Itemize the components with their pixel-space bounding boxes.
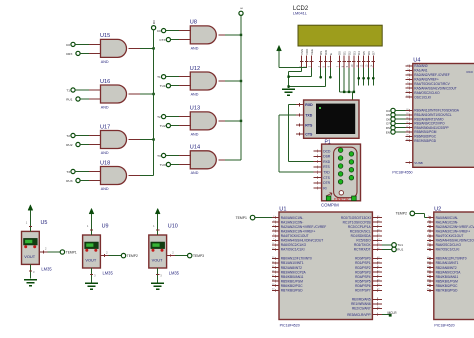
svg-text:RC5/SDO: RC5/SDO — [356, 239, 371, 243]
wire U14 output — [218, 159, 241, 161]
svg-text:RA3/AN3/C1IN+/VREF+: RA3/AN3/C1IN+/VREF+ — [281, 229, 316, 233]
wire T2 to U13.A — [166, 116, 191, 118]
svg-text:RB7/KBI3/PGD: RB7/KBI3/PGD — [281, 288, 303, 292]
svg-text:VOUT: VOUT — [85, 258, 96, 263]
svg-text:RB6/KBI2/PGC: RB6/KBI2/PGC — [281, 284, 303, 288]
svg-text:RU1: RU1 — [66, 98, 72, 102]
U1 pin RC0/T1OSO/T13CKI (pin 15) — [341, 216, 382, 220]
and-gate U12 — [190, 66, 217, 97]
junction MCLR — [389, 314, 392, 317]
svg-text:CRX: CRX — [66, 52, 73, 56]
svg-text:LM35: LM35 — [41, 267, 52, 272]
svg-text:RA6/OSC2/CLKO: RA6/OSC2/CLKO — [436, 243, 462, 247]
junction E end — [329, 76, 332, 79]
svg-text:RA4/T0CKI/C1OUT: RA4/T0CKI/C1OUT — [281, 234, 309, 238]
wire U9.VOUT to TEMP2 — [100, 250, 121, 257]
U4 right-side pin label (partial RC0/T1OSO) — [467, 70, 473, 74]
terminal TEMP2 — [121, 253, 138, 258]
U2 pin RB6/KBI2/PGC (pin 39) — [427, 284, 458, 288]
U2 pin RA6/OSC2/CLKO (pin 14) — [427, 243, 462, 247]
svg-text:D1: D1 — [343, 51, 347, 55]
svg-text:RC4/SDI/SDA: RC4/SDI/SDA — [351, 234, 372, 238]
svg-text:RW: RW — [324, 50, 328, 55]
svg-text:RB4/KBI0/AN11: RB4/KBI0/AN11 — [281, 275, 304, 279]
svg-text:TU1: TU1 — [397, 243, 403, 247]
compim P1 body — [322, 144, 361, 202]
svg-text:E: E — [329, 53, 333, 55]
terminal TU3 (input B of U14) — [160, 162, 171, 167]
svg-text:RB4/KBI0/AN11: RB4/KBI0/AN11 — [436, 275, 459, 279]
svg-text:TEMP2: TEMP2 — [396, 212, 407, 216]
U1 pin RD4/PSP4 (pin 27) — [355, 275, 382, 279]
svg-text:RD2/PSP2: RD2/PSP2 — [355, 266, 371, 270]
lcd pin RW (pin 5) — [323, 50, 328, 68]
junction U13-out / net E bus — [240, 120, 242, 122]
U4 pin RA4/T0CKI/C1OUT/RCV (pin 6) — [406, 82, 451, 86]
svg-text:U8: U8 — [190, 20, 197, 26]
wire D1 down — [343, 68, 345, 92]
U1 pin RD0/PSP0 (pin 19) — [355, 257, 382, 261]
U1 pin RB3/AN9/CCP2A (pin 36) — [272, 270, 307, 274]
U1 pin RD6/PSP6 (pin 29) — [355, 284, 382, 288]
compim pin RI — [314, 186, 327, 190]
svg-text:COMPIM: COMPIM — [321, 202, 339, 207]
svg-text:RE0/RD/AN5: RE0/RD/AN5 — [352, 298, 371, 302]
wire CTX to U8.B — [171, 39, 191, 41]
U4 pin RA5/AN4/SS/HLVDIN/C2OUT (pin 7) — [406, 86, 457, 90]
junction RS end — [319, 76, 322, 79]
U1 pin RB6/KBI2/PGC (pin 39) — [272, 284, 303, 288]
temperature sensor U10 (LM35) — [149, 224, 180, 276]
svg-text:C0: C0 — [66, 43, 70, 47]
wire U10.GND to ground — [156, 268, 162, 282]
wire E stub — [329, 68, 331, 77]
svg-text:U18: U18 — [100, 160, 110, 166]
svg-text:ERROR: ERROR — [334, 197, 349, 202]
U2 pin RB1/AN10/INT1 (pin 34) — [427, 261, 459, 265]
svg-text:T3: T3 — [66, 170, 70, 174]
U2 pin RB7/KBI3/PGD (pin 40) — [427, 288, 458, 292]
svg-text:D3: D3 — [352, 51, 356, 55]
svg-text:RB7/KBI3/PGD: RB7/KBI3/PGD — [414, 139, 436, 143]
svg-text:C0: C0 — [157, 29, 161, 33]
svg-text:U10: U10 — [168, 224, 178, 230]
ground (below U9) — [85, 283, 98, 289]
svg-text:U2: U2 — [434, 206, 441, 212]
svg-text:T1: T1 — [66, 89, 70, 93]
U1 pin RD3/PSP3 (pin 22) — [355, 270, 382, 274]
U4 pin RA0/AN0 (pin 2) — [406, 64, 428, 68]
terminal EN — [386, 130, 395, 135]
svg-text:VOUT: VOUT — [152, 258, 163, 263]
svg-text:RB1/AN10/INT1: RB1/AN10/INT1 — [436, 261, 459, 265]
terminal RU1 — [392, 247, 404, 252]
svg-text:U14: U14 — [190, 145, 200, 151]
wire U1.RC7 to RU1 — [382, 248, 392, 250]
microcontroller U4 (PIC18F4550) — [392, 58, 474, 175]
svg-text:RA5/AN4/SS/HLVDIN/C2OUT: RA5/AN4/SS/HLVDIN/C2OUT — [281, 239, 324, 243]
U1 pin RD1/PSP1 (pin 20) — [355, 261, 382, 265]
compim value label COMPIM — [321, 202, 339, 207]
virtual terminal pin TXD — [296, 113, 304, 116]
wire D3 down — [353, 68, 355, 92]
svg-text:DSR: DSR — [323, 155, 331, 159]
svg-text:RB2/AN8/INT2: RB2/AN8/INT2 — [436, 266, 457, 270]
ground (below U10) — [151, 283, 164, 289]
svg-text:PIC18F4520: PIC18F4520 — [434, 323, 454, 327]
lcd pin D3 (pin 10) — [351, 51, 356, 68]
wire RS stub — [320, 68, 322, 77]
svg-text:TEMP3: TEMP3 — [193, 254, 204, 258]
compim pin DSR — [314, 155, 331, 159]
wire VT.RXD to P1.RXD — [289, 105, 314, 162]
svg-text:TU1: TU1 — [160, 84, 166, 88]
U2 pin RA7/OSC1/CLKI (pin 13) — [427, 248, 460, 252]
svg-text:RA1/AN1: RA1/AN1 — [414, 69, 428, 73]
wire VSS to ground — [289, 68, 302, 88]
wire VDD to power — [279, 67, 307, 69]
svg-text:D4: D4 — [357, 51, 361, 55]
junction D6 — [367, 77, 370, 80]
microcontroller U1 (PIC18F4520) — [279, 206, 372, 327]
U1 pin RA1/AN1/C2IN- (pin 3) — [272, 220, 303, 224]
svg-text:RTS: RTS — [305, 123, 313, 127]
svg-text:RC2/CCP1/P1A: RC2/CCP1/P1A — [348, 225, 372, 229]
U4 pin OSC1/CLKI (pin 13) — [406, 95, 431, 99]
svg-text:TU3: TU3 — [160, 163, 166, 167]
U1 pin RA7/OSC1/CLKI (pin 13) — [272, 248, 305, 252]
terminal D5 — [386, 113, 395, 117]
svg-text:U9: U9 — [102, 224, 109, 230]
svg-text:RTS: RTS — [323, 165, 330, 169]
U2 pin RA5/AN4/SS/HLVDIN/C2OUT (pin 7) — [427, 239, 474, 243]
U1 pin RA6/OSC2/CLKO (pin 14) — [272, 243, 307, 247]
ground (LCD supply) — [282, 89, 295, 95]
compim pin RTS — [314, 165, 331, 169]
svg-text:VEE: VEE — [310, 49, 314, 55]
wire U1.RC6 to TU1 — [382, 244, 392, 246]
wire T3 to U14.A — [166, 155, 191, 157]
power arrow for U5 — [26, 205, 33, 232]
wire RU2 to U17.B — [80, 144, 101, 146]
wire VT.TXD to P1.TXD — [279, 115, 313, 172]
terminal RU3 (input B of U18) — [66, 178, 80, 183]
U4 pin RB2/AN8/INT2/VMO (pin 35) — [406, 117, 444, 121]
wire C0 to U8.A — [166, 30, 191, 32]
svg-text:D5: D5 — [362, 51, 366, 55]
wire TU1 to U12.B — [171, 85, 191, 87]
wire D0 down — [339, 68, 354, 92]
terminal D7 — [386, 121, 395, 125]
U1 pin RC7/RX/DT (pin 26) — [354, 248, 382, 252]
wire U8 output — [218, 34, 241, 36]
terminal D4 — [386, 108, 395, 113]
svg-text:RB2/AN8/INT2: RB2/AN8/INT2 — [281, 266, 302, 270]
svg-text:RA5/AN4/SS/HLVDIN/C2OUT: RA5/AN4/SS/HLVDIN/C2OUT — [436, 239, 474, 243]
terminal RX (top of left bus) — [152, 20, 157, 30]
svg-text:RB0/AN12/FLT0/INT0: RB0/AN12/FLT0/INT0 — [436, 257, 467, 261]
junction D3/bus — [353, 91, 355, 93]
U4 pin RB4/KBI0/AN11/CSSPP (pin 37) — [406, 126, 449, 130]
wire RU3 to U18.B — [80, 180, 101, 182]
wire RW to ground rail — [289, 68, 326, 87]
U1 pin RC2/CCP1/P1A (pin 17) — [348, 225, 382, 229]
wire U5.VOUT to TEMP1 — [39, 247, 60, 254]
wire D7 down — [372, 68, 374, 86]
terminal T1 (input A of U16) — [66, 88, 75, 93]
U2 pin RA3/AN3/C1IN+/VREF+ (pin 5) — [427, 229, 470, 233]
svg-text:RA2/AN2/C2IN+/VREF-/CVREF: RA2/AN2/C2IN+/VREF-/CVREF — [281, 225, 326, 229]
terminal T3 (input A of U14) — [157, 153, 166, 158]
power arrow for LCD VDD — [277, 45, 282, 67]
lcd pin RS (pin 4) — [318, 51, 323, 68]
U1 pin RD5/PSP5 (pin 28) — [355, 279, 382, 283]
lcd LCD2 body (LM041L) — [298, 25, 382, 46]
svg-text:AND: AND — [191, 92, 199, 96]
U4 pin VUSB (pin 18) — [406, 161, 423, 165]
terminal E (top of right bus) — [239, 7, 244, 15]
svg-text:VOUT: VOUT — [24, 254, 35, 259]
svg-text:OSC1/CLKI: OSC1/CLKI — [414, 95, 431, 99]
svg-text:RB7/KBI3/PGD: RB7/KBI3/PGD — [436, 288, 458, 292]
U2 pin RB5/KBI1/PGM (pin 38) — [427, 279, 458, 283]
U1 pin RB4/KBI0/AN11 (pin 37) — [272, 275, 304, 279]
terminal C0 (input A of U15) — [66, 42, 75, 47]
wire TU3 to U14.B — [171, 164, 191, 166]
U4 pin RB5/KBI1/PGM (pin 38) — [406, 130, 437, 134]
and-gate U17 — [100, 124, 127, 155]
U1 pin RC5/SDO (pin 24) — [356, 239, 382, 243]
svg-text:RA3/AN3/VREF+: RA3/AN3/VREF+ — [414, 78, 439, 82]
wire U18 output — [129, 175, 154, 177]
U1 pin RB0/AN12/FLT0/INT0 (pin 33) — [272, 257, 312, 261]
virtual terminal (serial monitor) — [304, 100, 359, 138]
junction VEE/ground — [287, 76, 289, 78]
and-gate U18 — [100, 160, 127, 191]
svg-text:RA1/AN1/C2IN-: RA1/AN1/C2IN- — [436, 220, 459, 224]
wire EN to U4 — [395, 131, 405, 133]
wire VEE to ground rail — [289, 68, 312, 77]
svg-text:MCLR: MCLR — [388, 311, 398, 315]
svg-text:AND: AND — [101, 187, 109, 191]
svg-text:RA7/OSC1/CLKI: RA7/OSC1/CLKI — [436, 248, 460, 252]
svg-text:U1: U1 — [279, 206, 286, 212]
svg-text:RC7/RX/DT: RC7/RX/DT — [354, 248, 371, 252]
U1 pin RB2/AN8/INT2 (pin 35) — [272, 266, 302, 270]
svg-text:U16: U16 — [100, 79, 110, 85]
junction D5 — [362, 77, 365, 80]
and-gate U13 — [190, 106, 216, 137]
junction D2/bus — [348, 91, 350, 93]
svg-text:DCD: DCD — [323, 149, 331, 153]
svg-text:CTS: CTS — [323, 176, 330, 180]
svg-text:D2: D2 — [347, 51, 351, 55]
wire D7 to U4 — [395, 122, 405, 124]
wire D5 down — [363, 68, 365, 86]
wire D5 to U4 — [395, 114, 405, 116]
svg-text:RA1/AN1/C2IN-: RA1/AN1/C2IN- — [281, 220, 304, 224]
wire U9.GND to ground — [90, 268, 96, 282]
svg-text:EN: EN — [386, 130, 390, 134]
U1 pin RE0/RD/AN5 (pin 8) — [352, 298, 382, 302]
svg-text:TEMP1: TEMP1 — [236, 216, 247, 220]
svg-text:RD7/PSP7: RD7/PSP7 — [355, 288, 371, 292]
svg-text:VDD: VDD — [305, 48, 309, 55]
svg-text:RXD: RXD — [323, 160, 331, 164]
U1 pin RD2/PSP2 (pin 21) — [355, 266, 382, 270]
svg-text:U15: U15 — [100, 33, 110, 39]
svg-text:T2: T2 — [157, 115, 161, 119]
U4 pin RB0/AN12/INT0/FLT0/SDI/SDA (pin 33) — [406, 109, 460, 113]
svg-text:RD5/PSP5: RD5/PSP5 — [355, 279, 371, 283]
svg-text:RB3/AN9/CCP2A: RB3/AN9/CCP2A — [281, 270, 307, 274]
terminal C0 (input A of U8) — [157, 29, 166, 34]
wire TEMP1 to U1.RA0 — [255, 217, 272, 219]
svg-text:TEMP1: TEMP1 — [66, 250, 77, 254]
terminal T2 (input A of U17) — [66, 133, 75, 138]
U1 pin RE2/CS/AN7 (pin 10) — [352, 307, 382, 311]
junction D7 — [372, 77, 375, 80]
terminal TU1 — [392, 243, 404, 248]
net label MCLR — [388, 311, 398, 315]
svg-text:RA0/AN0/C1IN-: RA0/AN0/C1IN- — [281, 216, 304, 220]
virtual terminal pin RXD — [296, 103, 304, 106]
and-gate U14 — [190, 145, 217, 176]
wire U16 output — [129, 93, 154, 95]
wire T1 to U12.A — [166, 76, 191, 78]
terminal TU2 (input B of U13) — [160, 124, 171, 129]
svg-text:RE3/MCLR/VPP: RE3/MCLR/VPP — [347, 313, 370, 317]
svg-text:PIC18F4550: PIC18F4550 — [392, 170, 412, 174]
terminal TEMP1 (net to U1.RA0) — [236, 215, 255, 220]
U2 pin RA2/AN2/C2IN+/VREF-/CVREF (pin 4) — [427, 225, 474, 229]
svg-text:RD0/PSP0: RD0/PSP0 — [355, 257, 371, 261]
svg-text:RA6/OSC2/CLKO: RA6/OSC2/CLKO — [281, 243, 307, 247]
U1 pin RC4/SDI/SDA (pin 23) — [351, 234, 382, 238]
and-gate U16 — [100, 79, 127, 110]
lcd pin D7 (pin 14) — [370, 51, 375, 68]
svg-text:RA3/AN3/C1IN+/VREF+: RA3/AN3/C1IN+/VREF+ — [436, 229, 471, 233]
wire U15 output — [129, 47, 154, 49]
svg-text:CTS: CTS — [305, 132, 313, 136]
terminal RU1 (input B of U16) — [66, 97, 80, 102]
U2 pin RB4/KBI0/AN11 (pin 37) — [427, 275, 459, 279]
terminal D6 — [386, 117, 395, 122]
U1 pin RC3/SCK/SCL (pin 18) — [350, 229, 382, 233]
wire CRX to U15.B — [80, 52, 101, 54]
U1 pin RD7/PSP7 (pin 30) — [355, 288, 382, 292]
svg-text:RC0: RC0 — [467, 70, 473, 74]
lcd pin VEE (pin 3) — [309, 49, 314, 68]
junction D1/bus — [343, 91, 345, 93]
svg-text:U12: U12 — [190, 66, 200, 72]
svg-text:E: E — [239, 7, 243, 9]
wire D2 down — [348, 68, 350, 92]
junction RW/ground — [287, 85, 289, 87]
svg-text:RA6/OSC2/CLKO: RA6/OSC2/CLKO — [414, 91, 440, 95]
svg-text:U4: U4 — [413, 58, 420, 64]
wire RS to U4 — [395, 127, 405, 129]
power arrow for U10 — [153, 208, 160, 235]
virtual terminal pin CTS — [296, 132, 304, 135]
svg-text:LM35: LM35 — [103, 270, 114, 275]
junction U17-out / net RX bus — [152, 138, 154, 140]
wire E bus vertical — [240, 16, 242, 160]
U1 pin RA5/AN4/SS/HLVDIN/C2OUT (pin 7) — [272, 239, 323, 243]
svg-text:VUSB: VUSB — [414, 161, 422, 165]
svg-text:RD1/PSP1: RD1/PSP1 — [355, 261, 371, 265]
svg-text:RA0/AN0: RA0/AN0 — [414, 64, 428, 68]
wire RU1 to U16.B — [80, 98, 101, 100]
svg-text:RA0/AN0/C1IN-: RA0/AN0/C1IN- — [436, 216, 459, 220]
svg-text:T2: T2 — [66, 134, 70, 138]
U1 pin RB7/KBI3/PGD (pin 40) — [272, 288, 303, 292]
lcd pin D1 (pin 8) — [341, 51, 346, 68]
svg-text:RA4/T0CKI/C1OUT/RCV: RA4/T0CKI/C1OUT/RCV — [414, 82, 450, 86]
svg-text:TEMP2: TEMP2 — [127, 254, 138, 258]
terminal CTX (input B of U8) — [159, 38, 170, 43]
svg-text:RX: RX — [152, 20, 156, 24]
svg-text:RD3/PSP3: RD3/PSP3 — [355, 270, 371, 274]
power arrow for U9 — [87, 208, 94, 235]
svg-text:PIC18F4520: PIC18F4520 — [280, 323, 300, 327]
U4 pin RB3/AN9/CCP2/VPO (pin 36) — [406, 122, 446, 126]
U2 pin RA0/AN0/C1IN- (pin 2) — [427, 216, 458, 220]
svg-text:TXD: TXD — [323, 171, 330, 175]
svg-text:TU2: TU2 — [160, 124, 166, 128]
junction D4 — [357, 77, 360, 80]
svg-text:T3: T3 — [157, 154, 161, 158]
lcd pin D5 (pin 12) — [361, 51, 366, 68]
svg-text:DTR: DTR — [323, 181, 330, 185]
svg-text:AND: AND — [101, 151, 109, 155]
svg-text:RI: RI — [323, 186, 326, 190]
junction U8-out / net E bus — [240, 34, 242, 36]
lcd LCD2 reference label — [293, 6, 309, 16]
svg-text:RXD: RXD — [305, 103, 313, 107]
svg-text:RA4/T0CKI/C1OUT: RA4/T0CKI/C1OUT — [436, 234, 464, 238]
svg-text:RU3: RU3 — [66, 179, 72, 183]
virtual terminal pin RTS — [296, 123, 304, 126]
and-gate U8 — [190, 20, 216, 51]
lcd pin VDD (pin 2) — [304, 48, 309, 68]
terminal RS — [386, 126, 395, 131]
U1 pin RC6/TX/CK (pin 25) — [354, 243, 382, 247]
lcd pin D4 (pin 11) — [356, 51, 361, 68]
svg-text:D0: D0 — [338, 51, 342, 55]
svg-text:RB5/KBI1/PGM: RB5/KBI1/PGM — [281, 279, 303, 283]
svg-text:RA2/AN2/VREF-/CVREF: RA2/AN2/VREF-/CVREF — [414, 73, 449, 77]
svg-text:AND: AND — [191, 46, 199, 50]
U2 pin RA1/AN1/C2IN- (pin 3) — [427, 220, 458, 224]
svg-text:RC3/SCK/SCL: RC3/SCK/SCL — [350, 229, 371, 233]
svg-text:RB0/AN12/FLT0/INT0: RB0/AN12/FLT0/INT0 — [281, 257, 312, 261]
and-gate U15 — [100, 33, 127, 64]
svg-text:RU1: RU1 — [397, 248, 403, 252]
terminal TEMP1 — [60, 250, 77, 255]
lcd pin VSS (pin 1) — [299, 49, 304, 68]
svg-text:RD6/PSP6: RD6/PSP6 — [355, 284, 371, 288]
wire D6 to U4 — [395, 118, 405, 120]
U1 pin RA3/AN3/C1IN+/VREF+ (pin 5) — [272, 229, 315, 233]
svg-text:RC0/T1OSO/T13CKI: RC0/T1OSO/T13CKI — [341, 216, 371, 220]
svg-text:RA7/OSC1/CLKI: RA7/OSC1/CLKI — [281, 248, 305, 252]
wire D4 to U4 — [395, 110, 405, 112]
U4 pin RB1/AN10/INT1/SCK/SCL (pin 34) — [406, 113, 452, 117]
U4 pin RB6/KBI2/PGC (pin 39) — [406, 135, 437, 139]
wire U5.GND to ground — [29, 264, 35, 278]
svg-text:U5: U5 — [41, 220, 48, 226]
